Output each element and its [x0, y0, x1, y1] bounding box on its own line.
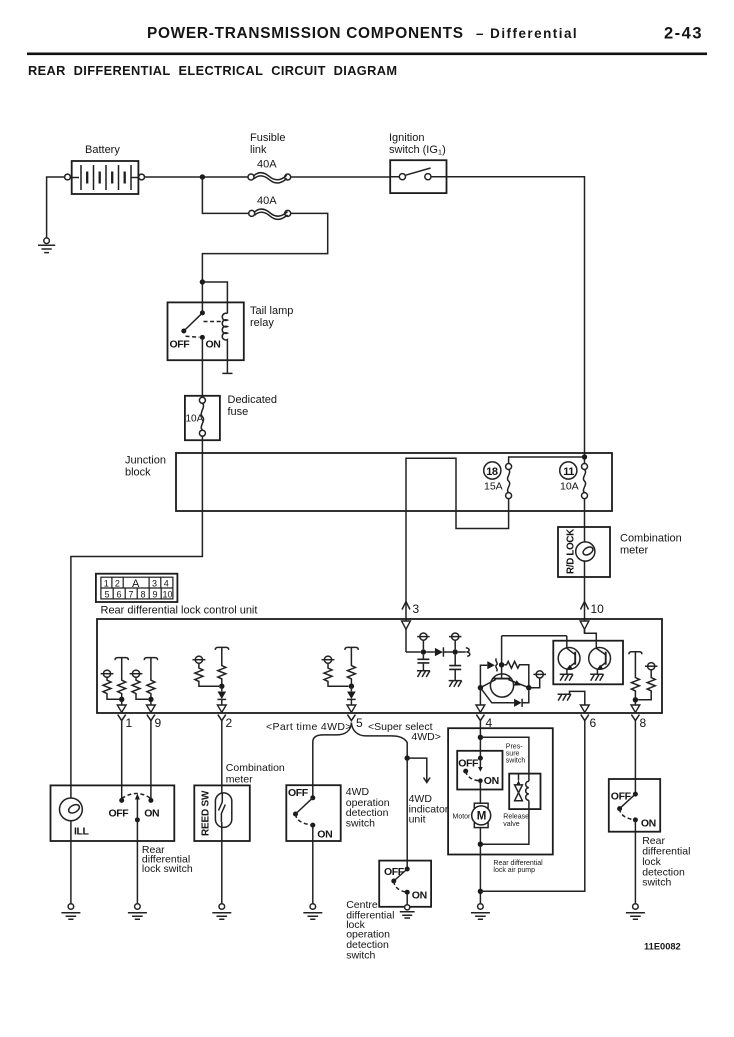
svg-text:Ignition: Ignition: [389, 132, 424, 144]
svg-text:7: 7: [129, 589, 134, 599]
indicator lamp R/D LOCK: [576, 542, 595, 561]
svg-text:2: 2: [226, 716, 233, 730]
diode D1 (pin2): [218, 686, 227, 705]
resistor R1 (pin1 left, pull-up to circle): [101, 670, 119, 699]
ground lock switch: [128, 904, 147, 920]
svg-text:15A: 15A: [484, 481, 503, 493]
resistor R9 (Q1 feedback): [504, 661, 529, 687]
svg-text:Rear differential lock control: Rear differential lock control unit: [101, 605, 258, 617]
svg-text:3: 3: [152, 578, 157, 588]
svg-text:unit: unit: [409, 814, 426, 826]
svg-text:9: 9: [155, 716, 162, 730]
release valve box: [509, 774, 540, 810]
svg-text:1: 1: [104, 578, 109, 588]
svg-text:switch: switch: [346, 949, 375, 961]
node pin9: [148, 697, 153, 702]
resistor R2 (pin1 right): [115, 658, 128, 705]
svg-text:switch: switch: [506, 758, 526, 765]
ground Q3: [590, 674, 603, 680]
fuse 11: [582, 464, 588, 499]
pin 8 marker: [631, 705, 647, 730]
svg-text:8: 8: [640, 716, 647, 730]
svg-text:5: 5: [356, 716, 363, 730]
node pin1: [119, 697, 124, 702]
svg-text:Combination: Combination: [620, 533, 682, 545]
ignition switch IG1: [390, 160, 446, 193]
svg-text:<Part time 4WD>: <Part time 4WD>: [266, 721, 352, 733]
switch S4 (pressure switch): [458, 756, 499, 787]
wire pin9 to lock switch: [150, 721, 152, 801]
diode D3: [426, 647, 452, 656]
pin 10 marker: [580, 602, 604, 630]
wire N2 continuation hook: [458, 648, 470, 656]
node ignition feed at junction block: [582, 454, 587, 459]
wire centre switch to ground: [406, 892, 408, 904]
combination meter reed box: [194, 785, 250, 841]
wire motor to ground: [479, 828, 481, 904]
pin 3 marker: [402, 602, 420, 630]
wire pin8 to detection switch: [634, 721, 636, 795]
wire pin4 from Q1: [479, 688, 481, 705]
wire battery to ground: [47, 177, 65, 238]
resistor R10 (pin8 left): [629, 652, 642, 705]
wire relay to dedicated fuse: [201, 337, 203, 397]
switch S3 (centre diff lock): [384, 866, 427, 902]
svg-text:10: 10: [591, 602, 605, 616]
wire feed to release valve coil: [480, 737, 529, 781]
node relay feed: [200, 279, 205, 284]
svg-text:Junction: Junction: [125, 455, 166, 467]
svg-text:18: 18: [486, 466, 498, 478]
pin 4 marker: [476, 705, 493, 730]
wire ignition to junction block: [447, 177, 585, 464]
battery right terminal: [139, 174, 145, 180]
svg-text:Fusible: Fusible: [250, 132, 285, 144]
wire battery to fuse: [145, 176, 249, 178]
svg-text:ON: ON: [412, 890, 427, 902]
4WD operation detection switch box: [286, 785, 340, 841]
node 4WD indicator branch: [405, 755, 410, 760]
svg-text:Tail lamp: Tail lamp: [250, 305, 293, 317]
ground 4WD switch: [303, 904, 322, 920]
lamp ILL: [60, 798, 90, 838]
wire rail down to Q1 base node: [501, 636, 503, 665]
resistor R7 (pin5 left): [322, 656, 349, 686]
svg-text:POWER-TRANSMISSION COMPONENTS: POWER-TRANSMISSION COMPONENTS: [147, 25, 464, 42]
wire pin4 into air pump: [479, 721, 481, 759]
wire pin2 to reed switch: [221, 721, 223, 794]
wire to 4WD indicator unit: [407, 758, 430, 782]
tail lamp relay: [168, 302, 244, 373]
svg-text:REED SW: REED SW: [201, 790, 212, 836]
svg-text:40A: 40A: [257, 159, 277, 171]
svg-text:meter: meter: [620, 545, 648, 557]
wire to fuse 18: [509, 457, 585, 463]
resistor R11 (pin8 right): [638, 663, 657, 700]
motor M1: [453, 803, 491, 827]
svg-text:11E0082: 11E0082: [644, 942, 681, 952]
svg-text:ILL: ILL: [74, 826, 90, 838]
ground battery: [38, 238, 55, 253]
svg-text:switch: switch: [346, 817, 375, 829]
svg-text:OFF: OFF: [384, 866, 405, 878]
node pin5: [349, 684, 354, 689]
terminal tap right of Q1: [529, 671, 546, 688]
connector table of control unit: [96, 574, 177, 602]
node Q1 emitter left: [478, 685, 483, 690]
svg-text:switch (IG1): switch (IG1): [389, 144, 446, 157]
svg-text:10: 10: [163, 589, 173, 599]
svg-text:OFF: OFF: [109, 808, 130, 820]
svg-text:Release: Release: [503, 814, 529, 821]
wire dedicated fuse through junction block to ILL lamp: [71, 436, 203, 798]
node pump output: [478, 889, 483, 894]
wire fuse 18 loop to pin 3: [406, 458, 509, 652]
wire pin5 brace left: [313, 723, 352, 798]
fuse No.11 circled label: [560, 462, 577, 479]
svg-text:meter: meter: [226, 774, 253, 786]
svg-text:OFF: OFF: [170, 339, 191, 351]
battery B1: [72, 161, 139, 194]
node pin2: [219, 684, 224, 689]
svg-text:6: 6: [117, 589, 122, 599]
svg-text:ON: ON: [144, 808, 159, 820]
svg-text:Dedicated: Dedicated: [228, 394, 278, 406]
node motor bottom: [478, 842, 483, 847]
svg-text:40A: 40A: [257, 195, 277, 207]
svg-text:Pres-: Pres-: [506, 744, 523, 751]
svg-text:M: M: [477, 811, 487, 823]
svg-text:4: 4: [164, 578, 169, 588]
diode D5 (Q1 bottom): [480, 688, 528, 707]
node Q1 base: [499, 662, 504, 667]
wire pin3 input: [406, 651, 421, 653]
ground air pump: [471, 904, 490, 920]
resistor R5 (pin2 left): [193, 656, 220, 686]
svg-text:lock air pump: lock air pump: [493, 867, 535, 874]
fuse No.18 circled label: [484, 462, 501, 479]
svg-text:A: A: [132, 578, 140, 590]
svg-text:block: block: [125, 467, 151, 479]
svg-text:5: 5: [105, 589, 110, 599]
svg-text:relay: relay: [250, 317, 274, 329]
svg-text:11: 11: [563, 466, 574, 478]
ground reed: [212, 904, 231, 920]
fusible link F1 40A: [248, 173, 291, 183]
svg-text:ON: ON: [206, 339, 221, 351]
wire F1 to ignition switch: [291, 176, 391, 178]
svg-text:3: 3: [413, 602, 420, 616]
node N2 with supply tap: [449, 633, 461, 655]
svg-text:REAR DIFFERENTIAL ELECTRICAL: REAR DIFFERENTIAL ELECTRICAL CIRCUIT DIA…: [28, 63, 397, 78]
diode D2 (pin5): [347, 686, 356, 705]
svg-text:fuse: fuse: [228, 406, 249, 418]
capacitor C2: [449, 655, 461, 681]
svg-text:Battery: Battery: [85, 144, 120, 156]
rear differential lock detection switch box: [609, 779, 660, 832]
node N1 with supply tap: [417, 633, 429, 655]
combination meter R/D LOCK lamp box: [558, 527, 610, 577]
wire coil to motor bottom: [480, 800, 529, 844]
node pin8: [633, 697, 638, 702]
wire to relay coil: [202, 282, 227, 314]
wire branch to fuse F2: [202, 177, 248, 213]
release valve symbol: [515, 775, 523, 801]
svg-text:2: 2: [115, 578, 120, 588]
wire reed to ground: [221, 827, 223, 903]
svg-text:ON: ON: [641, 818, 656, 830]
power transistor box: [553, 641, 623, 685]
wire pin5 brace right: [351, 723, 407, 759]
svg-text:ON: ON: [484, 775, 499, 787]
resistor R6 (pin2 right): [215, 647, 228, 686]
svg-text:lock switch: lock switch: [142, 863, 193, 875]
pin 2 marker: [217, 705, 232, 730]
release valve coil: [526, 781, 529, 800]
svg-text:OFF: OFF: [288, 787, 309, 799]
wire pin6 to pump output: [480, 721, 584, 892]
control unit U1 box: [97, 619, 662, 713]
svg-text:1: 1: [126, 716, 133, 730]
resistor R8 (pin5 right): [345, 647, 358, 686]
wire pin1 to lock switch: [121, 721, 123, 801]
wire detection switch to ground: [634, 820, 636, 904]
header rule: [27, 53, 707, 56]
transistor Q1: [480, 665, 528, 697]
pin 1 marker: [117, 705, 132, 730]
resistor R4 (pin9 right): [144, 658, 157, 705]
svg-text:valve: valve: [503, 821, 519, 828]
rear differential lock air pump box: [448, 728, 553, 854]
node air pump feed: [478, 735, 483, 740]
junction block: [176, 453, 612, 511]
ground ILL: [61, 904, 80, 920]
wire ILL lamp to ground: [70, 821, 72, 904]
ground centre switch: [400, 905, 415, 918]
svg-text:Rear differential: Rear differential: [493, 860, 543, 867]
svg-text:switch: switch: [642, 877, 671, 889]
reed switch: [215, 793, 231, 828]
svg-text:OFF: OFF: [458, 758, 479, 770]
svg-text:9: 9: [153, 589, 158, 599]
wire fuse 11 to combination meter lamp: [584, 499, 586, 543]
dedicated fuse 10A: [185, 396, 220, 440]
rear differential lock switch box: [51, 785, 175, 841]
pin 6 marker: [580, 705, 596, 730]
pressure switch box: [457, 751, 502, 790]
svg-text:4WD>: 4WD>: [411, 731, 440, 743]
wire switch to motor: [479, 781, 481, 804]
pin 5 marker: [347, 705, 363, 730]
pin 9 marker: [147, 705, 162, 730]
switch S5 (rear diff lock detection): [611, 791, 656, 830]
battery left terminal: [65, 174, 71, 180]
ground C1: [417, 671, 430, 677]
svg-text:Motor: Motor: [453, 814, 472, 821]
node Q1 right: [526, 685, 531, 690]
svg-text:R/D LOCK: R/D LOCK: [566, 529, 577, 574]
centre differential lock operation detection switch box: [379, 861, 431, 907]
node battery feed junction: [200, 174, 205, 179]
switch S1 OFF/ON (rear diff lock switch): [109, 794, 160, 823]
svg-text:10A: 10A: [560, 481, 579, 493]
fuse 18: [506, 464, 512, 499]
svg-text:6: 6: [590, 716, 597, 730]
wire lock switch to ground: [136, 820, 138, 904]
svg-text:sure: sure: [506, 751, 520, 758]
svg-text:2-43: 2-43: [664, 25, 703, 43]
svg-text:8: 8: [141, 589, 146, 599]
diode D4 into Q1 base: [480, 659, 497, 688]
switch S2 (4WD operation detection): [288, 787, 332, 841]
transistor Q3: [589, 648, 611, 675]
fusible link F2 40A: [249, 209, 291, 219]
ground detection switch: [626, 904, 645, 920]
svg-text:Combination: Combination: [226, 762, 285, 774]
wire pin6 to internal ground: [570, 691, 585, 705]
ground Q2: [560, 674, 573, 680]
wire pin10 to Q3: [585, 630, 597, 649]
wire lamp to pin 10: [584, 561, 586, 633]
wire to centre diff switch: [406, 758, 408, 869]
wire Q1 collector rail: [502, 635, 567, 637]
ground C2: [449, 681, 462, 687]
transistor Q2: [558, 636, 580, 674]
wire 4WD switch to ground: [312, 825, 314, 904]
svg-text:– Differential: – Differential: [476, 26, 578, 41]
svg-text:link: link: [250, 144, 267, 156]
capacitor C1: [417, 655, 429, 671]
ground pin6 internal: [558, 694, 571, 700]
wire F2 loop to tail lamp relay: [202, 213, 327, 313]
svg-text:ON: ON: [317, 829, 332, 841]
resistor R3 (pin9 left): [130, 670, 148, 699]
svg-text:OFF: OFF: [611, 791, 632, 803]
